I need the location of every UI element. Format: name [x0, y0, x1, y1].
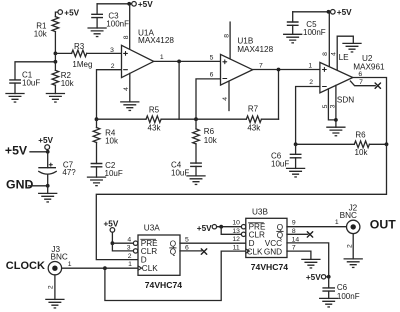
ground (C6 100nF) — [320, 298, 338, 307]
svg-text:74VHC74: 74VHC74 — [145, 280, 182, 290]
svg-text:1: 1 — [335, 219, 339, 226]
svg-text:R5: R5 — [149, 106, 160, 115]
svg-text:13: 13 — [232, 228, 240, 235]
ground (C6 10uF) — [287, 168, 305, 177]
svg-text:CLR: CLR — [141, 247, 157, 256]
ground (J3) — [46, 299, 64, 308]
wire R1 to node — [54, 32, 56, 54]
svg-text:10k: 10k — [204, 136, 218, 145]
svg-text:3: 3 — [110, 47, 114, 54]
svg-text:2: 2 — [309, 79, 313, 86]
wire U1B output down to R7 — [278, 70, 280, 120]
J2 pin2 wire to ground — [346, 234, 353, 259]
svg-text:1Meg: 1Meg — [72, 60, 92, 69]
svg-text:SDN: SDN — [337, 95, 354, 104]
svg-text:12: 12 — [232, 236, 240, 243]
wire node to C1 tap — [54, 53, 56, 61]
U3B GND (pin7) wire — [287, 245, 311, 260]
svg-text:GND: GND — [6, 177, 33, 191]
svg-text:1: 1 — [160, 54, 164, 61]
junction (CLK split) — [103, 266, 107, 270]
svg-text:+5V: +5V — [38, 136, 53, 145]
capacitor C4 — [171, 160, 201, 177]
svg-text:43k: 43k — [247, 123, 261, 132]
svg-text:+5V: +5V — [138, 0, 153, 9]
svg-text:74VHC74: 74VHC74 — [251, 262, 288, 272]
svg-text:7: 7 — [292, 245, 296, 252]
svg-text:10: 10 — [232, 220, 240, 227]
svg-text:10k: 10k — [355, 148, 369, 157]
ground (C1) — [6, 94, 24, 103]
capacitor C7 (polarized) — [39, 152, 76, 186]
svg-text:CLK: CLK — [142, 264, 158, 273]
junction (R6 / U2 out) — [385, 142, 389, 146]
U2 SDN pins 5/3 to ground — [322, 85, 354, 127]
svg-text:BNC: BNC — [340, 211, 357, 220]
svg-text:11: 11 — [233, 244, 240, 251]
U1A pin4 wire to ground — [123, 73, 130, 102]
U3B Qbar (pin8) stub with no-connect — [287, 228, 313, 237]
ground (R2) — [46, 94, 64, 103]
svg-text:MAX4128: MAX4128 — [138, 36, 174, 45]
ground (U1A pin4) — [121, 102, 139, 111]
+5V terminal (C6b) — [306, 273, 329, 282]
junction U1A output — [177, 60, 181, 64]
wire +5V to U3B CLR bubble — [221, 227, 241, 235]
capacitor C3 — [92, 4, 129, 29]
svg-text:14: 14 — [292, 236, 300, 243]
U1A pin8 wire — [123, 4, 130, 50]
resistor R1 — [34, 17, 59, 39]
svg-text:8: 8 — [322, 52, 329, 56]
ground (U3B pin7) — [302, 259, 320, 268]
svg-text:BNC: BNC — [51, 252, 68, 261]
+5V rail (C3 / U1A pin8) — [97, 0, 153, 9]
U1A output wire to U1B pin5 — [154, 54, 221, 61]
feedback wire U2 out to U3A D — [96, 144, 386, 259]
svg-text:4: 4 — [330, 52, 337, 56]
+5V terminal (R1 top) — [55, 8, 79, 17]
svg-text:+5V: +5V — [197, 224, 212, 233]
svg-text:100nF: 100nF — [106, 20, 129, 29]
svg-text:U3B: U3B — [252, 208, 268, 217]
ground (J2) — [344, 259, 362, 268]
svg-text:10uF: 10uF — [271, 160, 289, 169]
+5V rail (C5 / U2 pin8) — [293, 8, 352, 17]
U2 pin7 stub with no-connect — [350, 79, 380, 88]
svg-text:10k: 10k — [34, 29, 48, 38]
GND power entry — [6, 177, 50, 193]
svg-text:8: 8 — [123, 35, 130, 39]
J3 pin2 wire to ground — [47, 275, 55, 300]
svg-text:47?: 47? — [62, 168, 76, 177]
svg-text:+5V: +5V — [337, 8, 352, 17]
svg-text:2: 2 — [128, 253, 132, 260]
BNC connector J2 — [335, 203, 360, 233]
ground (C3) — [88, 28, 106, 37]
svg-text:10uF: 10uF — [22, 78, 40, 87]
U1B pin8 stub — [223, 22, 230, 59]
node junction (R3 tap) — [54, 52, 58, 56]
svg-text:5: 5 — [185, 236, 189, 243]
svg-text:6: 6 — [358, 71, 362, 78]
U2 pin8 wire — [322, 12, 329, 67]
ground (C5) — [284, 34, 302, 43]
svg-text:6: 6 — [210, 72, 214, 79]
svg-text:Q: Q — [170, 247, 176, 256]
svg-text:+5V: +5V — [5, 144, 28, 158]
resistor R7 — [246, 104, 278, 132]
svg-text:100nF: 100nF — [337, 292, 360, 301]
capacitor C5 — [288, 12, 326, 37]
wires +5V to PRE and CLR bubbles — [112, 243, 133, 251]
svg-text:+5V: +5V — [64, 8, 79, 17]
svg-text:R7: R7 — [248, 104, 259, 113]
svg-text:5: 5 — [322, 104, 329, 108]
svg-text:OUT: OUT — [370, 217, 396, 231]
U3A Qbar (pin6) stub with no-connect — [180, 245, 207, 255]
wire U1A output down to R5/R7 line — [178, 61, 180, 119]
svg-text:LE: LE — [339, 53, 350, 62]
wire / resistor R5 line — [97, 106, 247, 133]
resistor R2 — [52, 62, 74, 94]
+5V terminal (U3A PRE/CLR) — [104, 219, 119, 243]
svg-text:R6: R6 — [204, 127, 215, 136]
CLR bubble (U3B pin13) — [232, 228, 245, 237]
op-amp U1A — [122, 28, 175, 77]
U1B pin6 wire — [196, 72, 221, 120]
U2 output pin6 wire — [353, 71, 387, 144]
svg-text:+5V: +5V — [306, 273, 321, 282]
svg-text:10uF: 10uF — [105, 169, 123, 178]
svg-text:7: 7 — [259, 62, 263, 69]
capacitor C6 (10uF) — [271, 144, 301, 168]
PRE bubble (U3B pin10) — [232, 220, 245, 229]
svg-text:8: 8 — [292, 228, 296, 235]
U1B pin4 stub — [222, 81, 229, 110]
svg-text:6: 6 — [185, 245, 189, 252]
svg-text:3: 3 — [330, 104, 337, 108]
flip-flop U3B — [246, 208, 288, 272]
ground (C4) — [187, 176, 205, 185]
svg-text:C6: C6 — [337, 283, 348, 292]
U3B Q (pin9) wire to J2 — [287, 220, 347, 227]
U1B output wire to U2 pin1 — [253, 62, 320, 69]
capacitor C1 — [10, 71, 40, 94]
svg-text:2: 2 — [346, 244, 353, 248]
capacitor C2 — [91, 161, 123, 178]
junction (C6b top) — [327, 275, 331, 279]
ground (LE) — [343, 43, 361, 52]
svg-text:2: 2 — [111, 63, 115, 70]
PRE bubble (U3A pin4) — [127, 236, 137, 245]
resistor R6 (hysteresis) — [296, 130, 387, 157]
svg-text:GND: GND — [264, 248, 282, 257]
resistor R3 — [55, 42, 121, 69]
junction (R6a top) — [194, 117, 198, 121]
flip-flop U3A — [138, 224, 182, 291]
svg-text:MAX4128: MAX4128 — [237, 45, 273, 54]
+5V terminal (U3B PRE/CLR) — [197, 224, 242, 233]
resistor R6 (filter) — [193, 119, 218, 163]
svg-text:3: 3 — [127, 245, 131, 252]
ground (U2 SDN) — [327, 127, 345, 136]
U3A Q (pin5) wire to U3B D (pin12) — [180, 236, 246, 243]
svg-text:8: 8 — [223, 34, 230, 38]
svg-text:1: 1 — [68, 261, 72, 268]
U3B VCC (pin14) wire — [287, 236, 329, 276]
CLR bubble (U3A pin3) — [127, 245, 138, 254]
ground (power entry) — [39, 193, 57, 202]
svg-text:4: 4 — [127, 236, 131, 243]
BNC connector J3 — [48, 245, 72, 275]
ground (C2) — [88, 177, 106, 186]
svg-text:4: 4 — [123, 87, 130, 91]
junction (U3A PRE/CLR +5V) — [111, 241, 115, 245]
svg-text:10k: 10k — [61, 79, 75, 88]
capacitor C6 (100nF) — [323, 277, 360, 301]
svg-text:1: 1 — [308, 62, 312, 69]
op-amp U1B — [221, 37, 274, 86]
svg-text:1: 1 — [128, 261, 132, 268]
wire to U3B CLK (bottom run) — [105, 251, 246, 300]
svg-text:9: 9 — [292, 220, 296, 227]
svg-text:4: 4 — [222, 97, 229, 101]
node junction (C1 tap) — [54, 60, 58, 64]
svg-text:CLK: CLK — [247, 248, 263, 257]
svg-text:5: 5 — [210, 54, 214, 61]
svg-text:7: 7 — [359, 79, 363, 86]
svg-text:2: 2 — [47, 285, 54, 289]
U2 LE pin wire and ground — [330, 36, 353, 70]
svg-text:100nF: 100nF — [303, 28, 326, 37]
+5V power entry terminal — [5, 136, 54, 157]
svg-text:43k: 43k — [148, 124, 162, 133]
svg-text:+5V: +5V — [104, 219, 119, 228]
svg-text:R6: R6 — [355, 130, 366, 139]
feedback node junction (R4 top) — [95, 117, 99, 121]
junction (U3B +5V) — [219, 225, 223, 229]
CLOCK input wire — [62, 267, 138, 269]
resistor R4 — [93, 119, 119, 163]
U2 pin2 wire — [296, 79, 320, 144]
svg-text:10k: 10k — [105, 137, 119, 146]
junction (pins 5/3) — [334, 118, 338, 122]
comparator U2 — [320, 54, 385, 93]
svg-text:CLOCK: CLOCK — [6, 260, 45, 272]
wire node to C1 — [15, 62, 55, 80]
svg-text:U3A: U3A — [144, 224, 160, 233]
svg-text:R3: R3 — [74, 42, 85, 51]
junction U1B output — [277, 68, 281, 72]
junction (U2 pin2 / C6) — [294, 142, 298, 146]
wire U1A pin2 to feedback node — [97, 70, 122, 120]
